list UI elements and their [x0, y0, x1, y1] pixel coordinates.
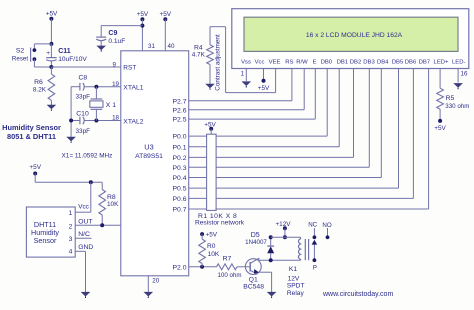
svg-text:Vss: Vss	[241, 59, 251, 65]
svg-text:+5V: +5V	[258, 85, 270, 92]
svg-text:LED-: LED-	[452, 59, 465, 65]
svg-text:DB1: DB1	[337, 59, 348, 65]
ground below C9	[96, 46, 106, 52]
node R8-OUT junction	[100, 223, 104, 227]
crystal X1	[90, 87, 103, 121]
label R1 10K X 8	[198, 213, 237, 220]
svg-text:BC548: BC548	[243, 284, 264, 291]
label R6 8.2K	[33, 79, 47, 94]
svg-text:R8: R8	[107, 194, 116, 201]
node R0 junction	[200, 265, 204, 269]
label R0 10K	[207, 243, 220, 258]
label R5 330 ohm	[445, 95, 469, 110]
svg-text:U3: U3	[144, 142, 153, 151]
svg-text:P0.5: P0.5	[173, 186, 187, 193]
node crystal rail junction	[69, 119, 73, 123]
wire collector to relay coil	[259, 258, 301, 260]
svg-text:RST: RST	[123, 65, 136, 72]
svg-text:GND: GND	[78, 244, 93, 251]
wire 8051 ground pin 20	[147, 276, 149, 292]
label Contrast adjustment	[214, 34, 221, 91]
svg-text:DB3: DB3	[363, 59, 375, 65]
wire Vcc branch	[75, 182, 91, 212]
svg-text:P0.6: P0.6	[173, 196, 187, 203]
label C8 value	[76, 93, 91, 100]
node XTAL1 crystal junction	[94, 85, 98, 89]
ground below Q1 emitter	[267, 292, 277, 298]
capacitor C8 33pF	[80, 83, 84, 91]
label DHT11 pin numbers	[69, 210, 73, 255]
svg-text:1: 1	[241, 71, 245, 78]
svg-text:P0.7: P0.7	[173, 207, 187, 214]
svg-text:SPDT: SPDT	[287, 282, 305, 289]
label OUT	[78, 218, 92, 225]
power +5V reset rail	[46, 11, 58, 21]
sensor DHT11 box	[26, 207, 75, 257]
label LCD title	[306, 32, 403, 39]
label U3	[144, 142, 153, 151]
svg-text:P0.0: P0.0	[173, 134, 187, 141]
resistor R0 10K	[199, 234, 206, 267]
wire +5V to pin31	[141, 19, 143, 51]
op-amp U3 AT89S51 box	[121, 51, 189, 276]
wire LED- to ground	[457, 69, 459, 83]
label C9 value	[108, 30, 125, 45]
label LCD pin names	[241, 59, 465, 65]
wire P2.0 line	[189, 266, 251, 268]
label pin 18	[112, 114, 119, 121]
svg-text:C10: C10	[76, 110, 89, 117]
svg-text:+5V: +5V	[206, 232, 218, 239]
label website	[322, 291, 393, 298]
svg-text:P2.5: P2.5	[173, 117, 187, 124]
label 1N4007	[245, 239, 267, 246]
svg-text:40: 40	[168, 43, 175, 50]
svg-text:8051 & DHT11: 8051 & DHT11	[7, 132, 56, 141]
LCD green screen	[244, 17, 458, 51]
svg-text:R5: R5	[446, 95, 455, 102]
wire +5V to reset node	[50, 19, 52, 44]
label C10	[76, 110, 89, 117]
switch S2 (reset pushbutton)	[31, 44, 52, 67]
wire DHT11 NC stub	[75, 237, 91, 239]
svg-text:R0: R0	[207, 243, 216, 250]
svg-text:1: 1	[69, 210, 73, 217]
label BC548	[243, 284, 264, 291]
ground below R4	[205, 84, 215, 90]
svg-text:XTAL1: XTAL1	[123, 85, 143, 92]
label pin 16	[461, 70, 468, 77]
svg-text:P0.2: P0.2	[173, 155, 187, 162]
svg-text:20: 20	[152, 277, 159, 284]
node reset-top junction	[49, 42, 53, 46]
svg-text:R4: R4	[194, 44, 203, 51]
node C9 junction	[140, 24, 144, 28]
svg-text:K1: K1	[289, 266, 298, 273]
svg-text:100 ohm: 100 ohm	[217, 272, 241, 279]
label pin 40	[168, 43, 175, 50]
label C10 value	[76, 128, 91, 135]
label P2.0	[173, 264, 187, 271]
svg-text:+5V: +5V	[29, 164, 41, 171]
label pin 19	[112, 81, 119, 88]
label Resistor network	[195, 220, 245, 227]
wire crystal ground rail	[70, 87, 72, 137]
label pin 3.1	[123, 222, 132, 229]
svg-text:Vcc: Vcc	[255, 59, 265, 65]
label R8 10K	[107, 194, 119, 208]
label AT89S51	[135, 153, 163, 160]
resistor R8 10K	[99, 182, 106, 225]
svg-text:10K: 10K	[107, 201, 119, 208]
svg-text:DB6: DB6	[405, 59, 417, 65]
ground below R6	[47, 105, 57, 111]
label DHT11 Humidity Sensor	[31, 220, 59, 245]
svg-text:P0.4: P0.4	[173, 175, 187, 182]
svg-text:P2.0: P2.0	[173, 264, 187, 271]
svg-text:Reset: Reset	[12, 55, 28, 62]
svg-text:DB4: DB4	[377, 59, 389, 65]
label K1 12V SPDT Relay	[287, 266, 305, 297]
label S2 Reset	[12, 48, 28, 63]
label 8051 port pins	[173, 98, 187, 213]
svg-text:330 ohm: 330 ohm	[445, 103, 469, 110]
svg-text:Humidity Sensor: Humidity Sensor	[2, 123, 61, 132]
svg-text:LED+: LED+	[434, 59, 449, 65]
svg-text:1N4007: 1N4007	[245, 239, 267, 246]
svg-text:AT89S51: AT89S51	[135, 153, 163, 160]
label pin 9	[113, 62, 117, 69]
svg-text:Q1: Q1	[249, 277, 258, 284]
svg-text:16: 16	[461, 70, 468, 77]
svg-text:10K: 10K	[208, 251, 220, 258]
power +5V below R5	[434, 125, 446, 132]
svg-text:N/C: N/C	[78, 231, 90, 238]
svg-text:+5V: +5V	[160, 11, 172, 18]
svg-text:+5V: +5V	[137, 11, 149, 18]
svg-text:DB0: DB0	[321, 59, 333, 65]
power +5V R0	[200, 232, 218, 239]
svg-text:NC: NC	[308, 221, 317, 228]
svg-text:Vcc: Vcc	[78, 203, 89, 210]
label XTAL2	[123, 119, 143, 126]
svg-text:18: 18	[112, 114, 119, 121]
resistor R5 330 ohm	[437, 88, 444, 123]
svg-text:Contrast adjustment: Contrast adjustment	[214, 34, 221, 91]
svg-text:31: 31	[148, 43, 155, 50]
svg-text:C8: C8	[78, 74, 87, 81]
wire XTAL2 line	[71, 120, 121, 122]
wire reset node to RST pin 9	[51, 66, 120, 68]
power +5V DHT11	[29, 164, 41, 176]
svg-text:R7: R7	[223, 256, 232, 263]
LCD module outer box	[232, 9, 469, 69]
power +12V	[275, 221, 291, 239]
svg-text:X1= 11.0592 MHz: X1= 11.0592 MHz	[62, 153, 113, 160]
svg-text:3: 3	[69, 236, 73, 243]
svg-text:VEE: VEE	[269, 59, 281, 65]
svg-text:33pF: 33pF	[76, 128, 91, 135]
label circuit title	[2, 123, 61, 141]
svg-text:4.7K: 4.7K	[192, 52, 206, 59]
node Vcc branch junction	[89, 180, 93, 184]
label C8	[78, 74, 87, 81]
svg-text:P: P	[313, 264, 317, 271]
svg-text:P0.3: P0.3	[173, 165, 187, 172]
capacitor C11 10uF/10V electrolytic	[46, 44, 56, 67]
power +5V resistor network	[204, 121, 216, 134]
svg-text:C11: C11	[58, 48, 71, 55]
wire DHT11 OUT to 8051 P3.1	[75, 224, 121, 226]
wire LED+ to R5	[439, 69, 441, 89]
svg-text:+5V: +5V	[46, 11, 58, 18]
svg-text:P2.6: P2.6	[173, 107, 187, 114]
node reset-bottom junction	[49, 65, 53, 69]
label RST	[123, 65, 136, 72]
wire Vcc to +5V	[258, 69, 270, 92]
label D5	[251, 232, 260, 239]
resistor R7 100 ohm	[217, 264, 238, 270]
svg-text:R/W: R/W	[296, 59, 308, 65]
ground below DHT11	[81, 292, 91, 298]
svg-text:R6: R6	[34, 79, 43, 86]
svg-text:DB5: DB5	[392, 59, 404, 65]
power +5V pin31	[137, 11, 149, 21]
svg-text:10uF/10V: 10uF/10V	[58, 56, 87, 63]
svg-text:RS: RS	[285, 59, 293, 65]
wire DHT11 Vcc stub label	[78, 203, 89, 210]
resistor R1 10Kx8 network box	[207, 134, 217, 210]
svg-text:X 1: X 1	[106, 102, 116, 109]
wire junction to C9	[101, 25, 142, 27]
svg-text:S2: S2	[16, 48, 25, 55]
label pin 20	[152, 277, 159, 284]
svg-text:9: 9	[113, 62, 117, 69]
svg-text:XTAL2: XTAL2	[123, 119, 143, 126]
label R7	[223, 256, 232, 263]
ground below 8051	[144, 292, 154, 298]
resistor R6 8.2K	[48, 67, 55, 105]
resistor R4 4.7K contrast	[207, 27, 214, 84]
svg-text:+5V: +5V	[434, 125, 446, 132]
ground below crystal rail	[66, 137, 76, 143]
svg-text:NO: NO	[322, 222, 331, 229]
label X1	[106, 102, 116, 109]
svg-text:Resistor network: Resistor network	[195, 220, 245, 227]
label P	[313, 264, 317, 271]
label C11 value	[58, 48, 87, 63]
wire +5V rail to R8	[35, 174, 102, 183]
svg-text:+: +	[46, 50, 50, 57]
svg-text:OUT: OUT	[78, 218, 92, 225]
svg-text:C9: C9	[108, 30, 117, 37]
relay K1 coil	[271, 237, 301, 260]
wire +5V to pin40	[164, 19, 166, 51]
label pin 31	[148, 43, 155, 50]
svg-text:E: E	[313, 59, 317, 65]
label NC	[308, 221, 317, 228]
wire DHT11 GND	[75, 251, 85, 292]
wire XTAL1 line	[71, 86, 121, 88]
ground below LED-	[453, 83, 463, 89]
wire VEE to contrast pot	[210, 27, 276, 93]
node XTAL2 crystal junction	[94, 119, 98, 123]
label GND	[78, 244, 93, 251]
svg-text:19: 19	[112, 81, 119, 88]
wire bus P2.7-P2.5 to RS R/W E and P0.0-P0.7 to DB0-DB7	[189, 69, 429, 210]
svg-text:33pF: 33pF	[76, 93, 91, 100]
svg-text:P2.7: P2.7	[173, 98, 187, 105]
label pin 1	[241, 71, 245, 78]
label crystal frequency	[62, 153, 113, 160]
relay K1 core	[305, 239, 308, 260]
transistor Q1 BC548	[245, 258, 271, 292]
svg-text:2: 2	[69, 223, 73, 230]
svg-text:0.1uF: 0.1uF	[108, 38, 125, 45]
relay K1 contacts	[312, 228, 330, 262]
svg-text:Sensor: Sensor	[34, 236, 57, 245]
svg-text:DB7: DB7	[419, 59, 430, 65]
diode D5 1N4007	[267, 235, 274, 262]
label 100 ohm	[217, 272, 241, 279]
svg-text:P0.1: P0.1	[173, 144, 187, 151]
wire Vss to ground	[245, 69, 247, 82]
label N/C	[78, 231, 90, 238]
svg-text:16 x 2 LCD MODULE JHD 162A: 16 x 2 LCD MODULE JHD 162A	[306, 32, 403, 39]
capacitor C9 0.1uF	[96, 26, 106, 46]
ground below Vss	[242, 81, 252, 87]
capacitor C10 33pF	[80, 117, 84, 125]
svg-text:DB2: DB2	[350, 59, 361, 65]
label XTAL1	[123, 85, 143, 92]
label Q1	[249, 277, 258, 284]
power +5V pin40	[160, 11, 172, 21]
svg-text:www.circuitstoday.com: www.circuitstoday.com	[322, 291, 393, 298]
svg-text:Relay: Relay	[287, 290, 305, 297]
svg-text:4: 4	[69, 249, 73, 256]
label NO	[322, 222, 331, 229]
svg-text:8.2K: 8.2K	[33, 87, 47, 94]
label R4 4.7K	[192, 44, 206, 58]
